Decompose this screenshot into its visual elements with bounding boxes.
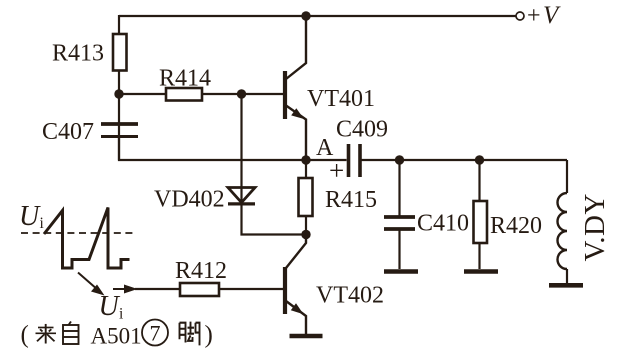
svg-text:i: i xyxy=(40,215,45,232)
node junction dot R414/VD402 xyxy=(237,89,246,98)
emitter xyxy=(286,106,306,161)
wire VD402 branch from R414 junction down (crosses mid rail) xyxy=(240,94,242,204)
base bar xyxy=(283,71,287,119)
node junction dot R413/R414/C407 xyxy=(114,89,123,98)
svg-text:R412: R412 xyxy=(175,258,227,284)
capacitor C409 plates xyxy=(349,144,361,177)
label +V xyxy=(527,2,561,29)
svg-text:R415: R415 xyxy=(325,187,377,213)
node dot R420 top xyxy=(475,155,484,164)
wire VD402 cathode down and right to R415 bottom node xyxy=(242,204,307,235)
svg-text:V.DY: V.DY xyxy=(579,193,611,261)
resistor R412 xyxy=(180,283,219,296)
svg-text:C409: C409 xyxy=(336,117,388,143)
label R420 xyxy=(490,213,542,239)
label VT401 xyxy=(307,86,375,112)
inductor V.DY coil xyxy=(558,193,568,269)
svg-text:VD402: VD402 xyxy=(154,187,225,213)
wire C407 bottom corner to mid rail xyxy=(119,137,347,161)
svg-text:+: + xyxy=(329,156,344,186)
label A xyxy=(316,135,334,161)
wire C410 top xyxy=(398,160,400,216)
svg-text:VT401: VT401 xyxy=(307,86,375,112)
wire C409 right plate to V.DY corner xyxy=(360,159,567,161)
node dot top rail / VT401 collector xyxy=(301,11,310,20)
label R415 xyxy=(325,187,377,213)
svg-text:7: 7 xyxy=(150,321,161,346)
emitter arrow xyxy=(291,108,304,119)
arrow from waveform to Ui xyxy=(78,273,105,296)
wire R420 top xyxy=(478,160,480,201)
wire arrow to R412 xyxy=(135,288,180,290)
label Ui input bottom xyxy=(99,291,125,323)
capacitor C407 xyxy=(101,124,138,137)
svg-text:V: V xyxy=(543,2,561,29)
wire C410 bottom xyxy=(398,229,400,269)
ground R420 xyxy=(464,269,498,274)
svg-text:C407: C407 xyxy=(42,119,94,145)
resistor R414 xyxy=(166,88,202,101)
svg-text:): ) xyxy=(205,322,213,349)
svg-text:(: ( xyxy=(21,322,29,349)
waveform sawtooth xyxy=(44,208,130,269)
wire R415 bottom to junction xyxy=(305,216,307,235)
transistor VT402 xyxy=(285,235,306,335)
svg-text:R414: R414 xyxy=(159,66,211,92)
diode VD402 xyxy=(228,188,255,204)
resistor R413 xyxy=(113,34,127,71)
caption A501 xyxy=(91,324,142,349)
label R412 xyxy=(175,258,227,284)
terminal +V open circle xyxy=(516,12,524,20)
wire coil bottom xyxy=(566,269,568,283)
caption closing paren xyxy=(205,322,213,349)
caption hanzi zi xyxy=(63,322,79,345)
label V.DY rotated xyxy=(579,193,611,261)
label C407 xyxy=(42,119,94,145)
node dot C410 top xyxy=(395,155,404,164)
label VT402 xyxy=(316,283,384,309)
svg-text:R413: R413 xyxy=(52,41,104,67)
arrow into R412 wire xyxy=(113,285,138,294)
label R413 xyxy=(52,41,104,67)
svg-text:U: U xyxy=(19,201,41,232)
label + of C409 xyxy=(329,156,344,186)
label R414 xyxy=(159,66,211,92)
svg-text:VT402: VT402 xyxy=(316,283,384,309)
collector xyxy=(286,235,306,269)
waveform dashed baseline xyxy=(21,232,137,234)
emitter arrow xyxy=(291,303,304,314)
caption hanzi lai xyxy=(36,324,57,344)
svg-text:A501: A501 xyxy=(91,324,142,349)
svg-text:U: U xyxy=(99,291,121,322)
node A dot xyxy=(301,155,310,164)
wire R420 bottom xyxy=(478,243,480,269)
label Ui input top xyxy=(19,201,45,232)
resistor R415 xyxy=(299,178,313,216)
ground V.DY xyxy=(549,283,583,288)
caption hanzi jiao xyxy=(180,322,200,346)
svg-text:R420: R420 xyxy=(490,213,542,239)
wire node A to R415 top xyxy=(305,160,307,178)
svg-text:+: + xyxy=(527,3,541,29)
capacitor C410 xyxy=(384,217,415,229)
emitter xyxy=(286,301,306,334)
svg-text:i: i xyxy=(119,306,124,323)
label C409 xyxy=(336,117,388,143)
wire junction to R414 xyxy=(119,93,166,95)
wire top supply rail xyxy=(119,15,516,17)
ground C410 xyxy=(384,269,418,274)
caption circled 7 xyxy=(142,320,168,346)
collector xyxy=(286,16,306,79)
wire R414 to VT401 base xyxy=(202,93,283,95)
node junction dot R415/VD402/VT402 collector xyxy=(301,230,310,239)
wire R413 bottom to junction xyxy=(118,71,120,161)
wire R412 to VT402 base xyxy=(219,288,283,290)
wire top-left corner down to R413 xyxy=(118,15,120,34)
base bar xyxy=(283,267,287,314)
resistor R420 xyxy=(474,201,488,243)
label C410 xyxy=(417,211,469,237)
transistor VT401 xyxy=(285,16,306,160)
caption (from A501 pin 7) xyxy=(21,322,29,349)
wire V.DY corner down to coil xyxy=(566,160,568,193)
svg-text:C410: C410 xyxy=(417,211,469,237)
ground VT402 emitter xyxy=(290,334,323,339)
label VD402 xyxy=(154,187,225,213)
